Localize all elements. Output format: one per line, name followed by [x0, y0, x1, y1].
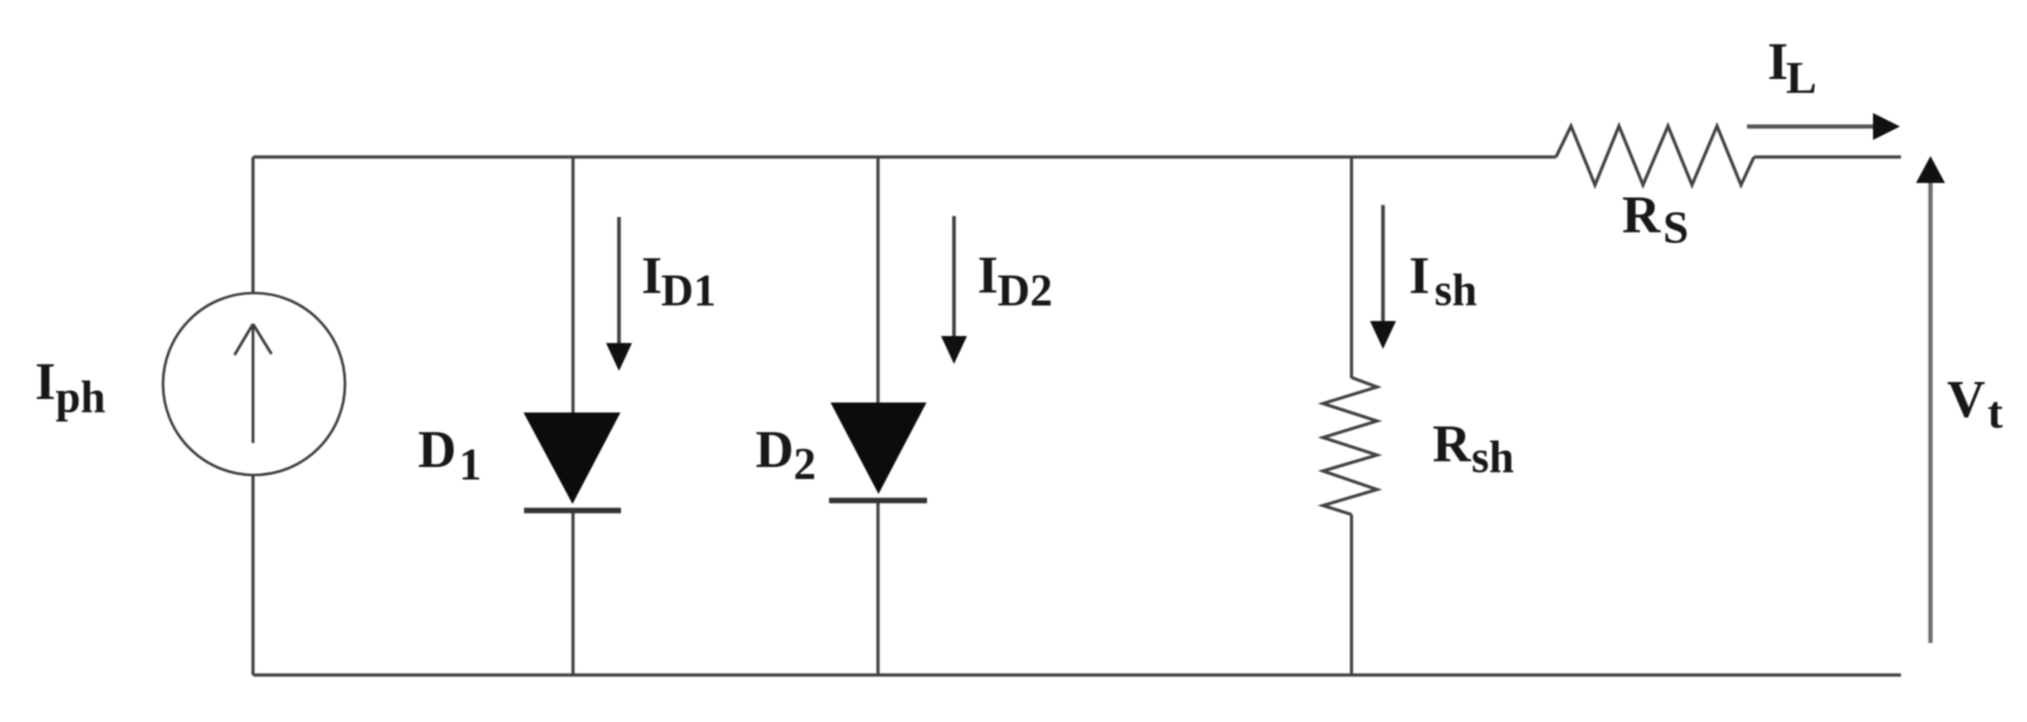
svg-text:I: I — [35, 353, 56, 411]
resistor Rsh zigzag — [1323, 378, 1377, 515]
current source Iph circle — [163, 293, 345, 475]
svg-text:D1: D1 — [661, 266, 716, 316]
svg-text:2: 2 — [794, 439, 817, 489]
current source Iph arrow — [235, 324, 272, 443]
wire left rail lower — [251, 474, 254, 675]
wire top right segment after RS — [1754, 155, 1901, 158]
svg-text:ph: ph — [56, 372, 106, 422]
svg-text:R: R — [1433, 415, 1472, 473]
svg-text:sh: sh — [1472, 432, 1515, 482]
arrow ID2 current — [941, 216, 967, 364]
diode D1 — [524, 413, 622, 511]
svg-text:I: I — [642, 247, 663, 305]
svg-text:I: I — [978, 247, 999, 305]
svg-text:L: L — [1786, 52, 1817, 103]
arrow IL current — [1747, 113, 1900, 140]
svg-text:sh: sh — [1435, 265, 1478, 315]
svg-text:R: R — [1622, 186, 1661, 244]
svg-text:S: S — [1663, 202, 1689, 253]
svg-text:V: V — [1947, 371, 1985, 429]
wire D2 branch upper — [876, 157, 879, 404]
svg-text:1: 1 — [459, 440, 482, 490]
wire Rsh branch lower — [1350, 515, 1353, 676]
wire top bus — [253, 155, 1556, 158]
svg-text:I: I — [1409, 247, 1430, 305]
diode D2 — [829, 403, 927, 501]
svg-text:D: D — [418, 421, 456, 479]
wire D1 branch lower — [571, 508, 574, 675]
wire left rail upper — [251, 157, 254, 294]
arrow Vt voltage — [1916, 156, 1945, 643]
resistor RS zigzag — [1556, 126, 1754, 185]
arrow ID1 current — [606, 217, 632, 371]
svg-text:D: D — [756, 421, 794, 479]
svg-text:t: t — [1988, 387, 2004, 438]
wire Rsh branch upper — [1350, 157, 1353, 378]
wire D1 branch upper — [571, 157, 574, 414]
wire D2 branch lower — [876, 498, 879, 675]
wire bottom bus — [253, 673, 1901, 676]
svg-text:D2: D2 — [998, 266, 1053, 316]
arrow Ish current — [1370, 205, 1396, 349]
